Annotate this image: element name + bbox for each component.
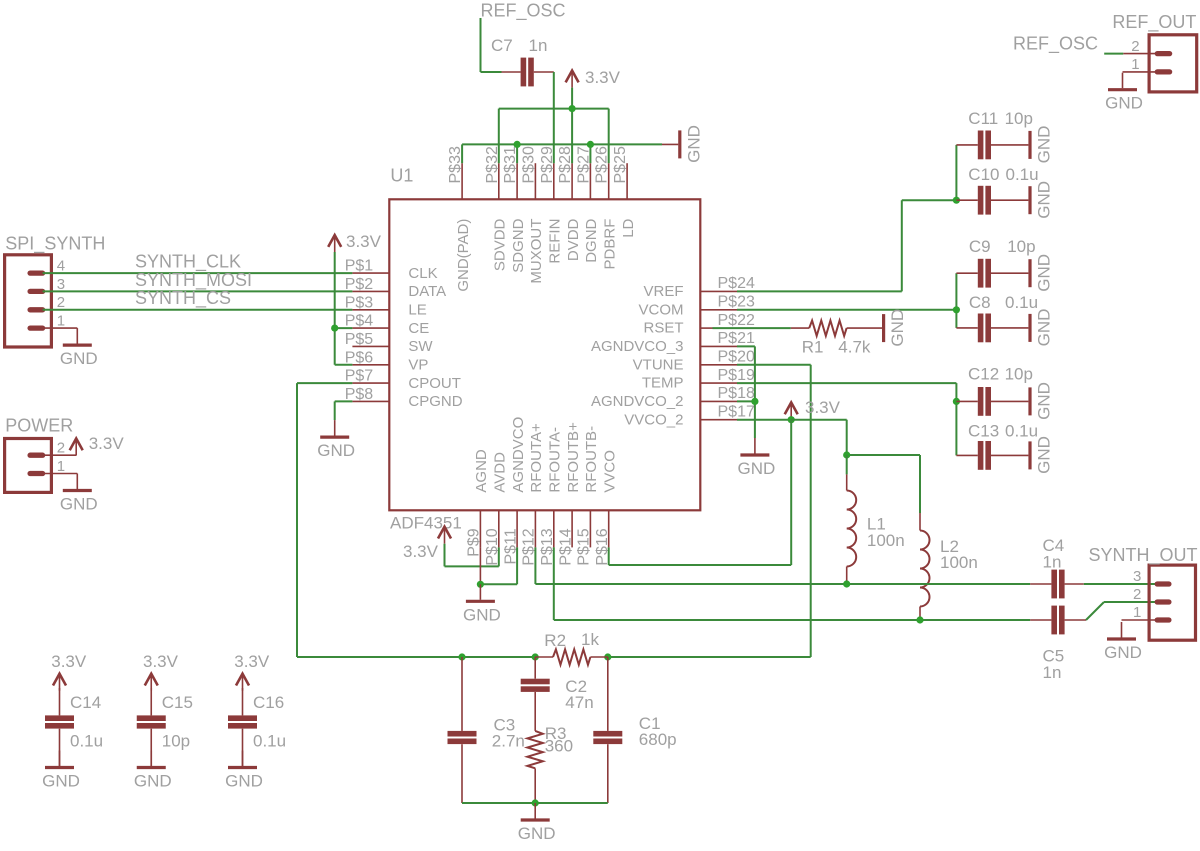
svg-text:1: 1 (57, 313, 65, 330)
junction at L1 top (843, 451, 850, 458)
svg-text:C8: C8 (969, 293, 991, 312)
junction at R2 left / C2 (532, 653, 539, 660)
pin P$19 (TEMP) right of U1 (642, 367, 755, 392)
svg-text:P$2: P$2 (345, 276, 374, 293)
svg-text:P$19: P$19 (718, 367, 755, 384)
ground GND (REF_OUT) (1105, 73, 1143, 113)
svg-text:REFIN: REFIN (547, 219, 564, 264)
wire net SYNTH_CLK (43, 252, 353, 274)
pin P$11 (AGNDVCO) bottom of U1 (502, 417, 527, 565)
wire VREF up-branch to C11 (955, 145, 957, 200)
svg-text:R1: R1 (802, 338, 824, 357)
pin P$20 (VTUNE) right of U1 (633, 349, 755, 374)
svg-text:LD: LD (620, 218, 637, 237)
svg-text:CPGND: CPGND (408, 393, 462, 410)
pin P$29 (REFIN) top of U1 (539, 146, 564, 264)
svg-text:2: 2 (57, 440, 65, 457)
svg-text:SYNTH_OUT: SYNTH_OUT (1089, 545, 1198, 566)
svg-text:SPI_SYNTH: SPI_SYNTH (5, 234, 105, 255)
wire loop filter bottom rail (462, 802, 608, 804)
svg-text:DATA: DATA (408, 283, 446, 300)
svg-text:1n: 1n (1043, 663, 1062, 682)
svg-text:10p: 10p (1007, 237, 1035, 256)
svg-text:3.3V: 3.3V (234, 652, 270, 671)
wire AGNDVCO_3/AGNDVCO_2 to ground (737, 346, 755, 438)
svg-text:4.7k: 4.7k (838, 338, 871, 357)
pin P$30 (MUXOUT) top of U1 (520, 146, 545, 284)
wire RFOUTA+ net (P$12 to C4) (535, 547, 1030, 584)
ground GND (AGND) (463, 584, 501, 624)
svg-text:C11: C11 (968, 109, 998, 128)
svg-text:DGND: DGND (583, 218, 600, 262)
svg-text:3.3V: 3.3V (346, 232, 382, 251)
wire VVCO net (P$16 up to VVCO_2) (609, 420, 792, 565)
junction at AGNDVCO_2 (751, 398, 758, 405)
resistor R2 (535, 630, 608, 665)
ground GND (CPGND) (317, 420, 355, 460)
svg-text:AGNDVCO_2: AGNDVCO_2 (591, 393, 684, 410)
svg-text:GND: GND (317, 441, 355, 460)
svg-text:680p: 680p (639, 730, 677, 749)
svg-text:C9: C9 (969, 237, 991, 256)
inductor L2 (920, 513, 978, 620)
svg-text:P$15: P$15 (576, 528, 593, 565)
pin P$7 (CPOUT) left of U1 (345, 368, 461, 392)
svg-text:GND: GND (1104, 643, 1142, 662)
capacitor C10 (956, 165, 1038, 215)
svg-text:P$23: P$23 (718, 294, 755, 311)
net label REF_OSC (top) (481, 1, 566, 22)
wire net SYNTH_MOSI (43, 270, 353, 292)
pin P$33 (GND(PAD)) top of U1 (447, 146, 472, 292)
wire SYNTH_OUT pin1 to ground (1122, 619, 1158, 621)
svg-text:GND: GND (60, 495, 98, 514)
pin P$24 (VREF) right of U1 (643, 275, 754, 300)
wire VTUNE net (P$20 to loop filter) (737, 365, 811, 657)
svg-text:P$25: P$25 (612, 146, 629, 183)
ground GND (C13) (1030, 436, 1054, 474)
svg-text:P$8: P$8 (345, 386, 374, 403)
svg-text:10p: 10p (1005, 365, 1033, 384)
ground GND (C14) (42, 751, 80, 791)
junction at R2 right / C1 (604, 653, 611, 660)
wire 3.3V rail to CE/VP (335, 252, 353, 365)
svg-text:MUXOUT: MUXOUT (528, 219, 545, 284)
svg-text:0.1u: 0.1u (1005, 293, 1038, 312)
ground GND (R1) (884, 309, 908, 347)
svg-text:GND: GND (684, 125, 703, 163)
svg-text:RSET: RSET (643, 320, 683, 337)
svg-text:GND: GND (1035, 254, 1054, 292)
svg-text:RFOUTA-: RFOUTA- (547, 427, 564, 493)
pin P$8 (CPGND) left of U1 (345, 386, 463, 410)
connector SYNTH_OUT (1089, 545, 1198, 640)
svg-text:0.1u: 0.1u (1005, 422, 1038, 441)
svg-text:GND(PAD): GND(PAD) (455, 219, 472, 292)
svg-text:P$4: P$4 (345, 313, 374, 330)
svg-text:3.3V: 3.3V (89, 434, 125, 453)
svg-text:4: 4 (57, 258, 65, 275)
svg-text:GND: GND (1035, 126, 1054, 164)
ground GND (C11) (1030, 126, 1054, 164)
pin P$12 (RFOUTA+) bottom of U1 (521, 423, 546, 566)
svg-text:ADF4351: ADF4351 (390, 514, 462, 533)
svg-text:GND: GND (518, 824, 556, 843)
wire REF_OUT pin1 to ground (1123, 71, 1158, 73)
wire RSET net (713, 327, 791, 329)
ground GND (top right of U1) (662, 125, 703, 163)
wire loop filter rail (CPOUT/VTUNE) (297, 656, 811, 658)
wire top bus A (3.3V: P$32-P$26) (499, 109, 609, 164)
svg-text:VCOM: VCOM (639, 301, 684, 318)
wire VREF net (P$24 to C10/C11) (737, 200, 956, 291)
svg-text:VP: VP (408, 357, 428, 374)
svg-text:REF_OSC: REF_OSC (1013, 34, 1098, 55)
svg-text:100n: 100n (867, 531, 905, 550)
svg-text:P$24: P$24 (718, 275, 755, 292)
svg-text:PDBRF: PDBRF (601, 219, 618, 270)
capacitor C1 (593, 657, 676, 803)
capacitor C2 (521, 657, 594, 731)
junction bus B at P$31 (514, 141, 521, 148)
svg-text:P$7: P$7 (345, 368, 374, 385)
connector POWER (5, 416, 74, 493)
pin P$4 (CE) left of U1 (345, 313, 430, 337)
svg-text:GND: GND (888, 309, 907, 347)
svg-text:CLK: CLK (408, 265, 437, 282)
svg-text:1: 1 (1131, 56, 1139, 73)
svg-text:P$30: P$30 (520, 146, 537, 183)
svg-text:VREF: VREF (643, 283, 683, 300)
junction at VCOM (953, 306, 960, 313)
pin P$21 (AGNDVCO_3) right of U1 (591, 330, 755, 355)
resistor R1 (791, 321, 883, 357)
supply 3.3V (C14) (51, 652, 87, 691)
svg-text:P$17: P$17 (718, 404, 755, 421)
wire VVCO_2 net (P$17) (737, 417, 791, 420)
svg-text:AGNDVCO: AGNDVCO (510, 417, 527, 493)
svg-text:GND: GND (60, 349, 98, 368)
svg-text:REF_OUT: REF_OUT (1112, 12, 1196, 33)
capacitor C13 (956, 422, 1038, 470)
pin P$16 (VVCO) bottom of U1 (594, 450, 619, 566)
capacitor C14 (45, 688, 103, 766)
pin P$17 (VVCO_2) right of U1 (624, 404, 755, 429)
svg-text:P$14: P$14 (557, 528, 574, 565)
pin P$3 (LE) left of U1 (345, 294, 427, 318)
capacitor C11 (956, 109, 1033, 159)
svg-text:AVDD: AVDD (492, 452, 509, 493)
wire POWER pin2 to 3.3V (43, 454, 77, 456)
wire RFOUTA- net (P$13 to C5) (554, 547, 1030, 620)
pin P$32 (SDVDD) top of U1 (484, 146, 509, 271)
svg-text:47n: 47n (565, 693, 593, 712)
connector SPI_SYNTH (5, 234, 106, 348)
capacitor C15 (137, 688, 193, 766)
svg-text:RFOUTA+: RFOUTA+ (528, 423, 545, 493)
svg-text:VTUNE: VTUNE (633, 356, 684, 373)
svg-text:3.3V: 3.3V (403, 542, 439, 561)
ground GND (SYNTH_OUT) (1104, 622, 1142, 662)
svg-text:GND: GND (738, 459, 776, 478)
ground GND (C16) (225, 751, 263, 791)
ground GND (C9) (1030, 254, 1054, 292)
svg-text:POWER: POWER (5, 416, 73, 436)
IC U1 body (389, 199, 700, 510)
inductor L1 (847, 455, 905, 584)
wire CPGND to ground (335, 401, 353, 420)
svg-text:SDGND: SDGND (510, 218, 527, 272)
wire top bus B (GND: P$33-P$31-P$27) (462, 144, 662, 163)
wire 3.3V to P$10 (445, 544, 499, 567)
ground GND (C10) (1030, 181, 1054, 219)
connector REF_OUT (1112, 12, 1196, 92)
wire REF_OSC to REF_OUT pin2 (1104, 53, 1157, 55)
svg-text:C16: C16 (253, 693, 284, 712)
svg-text:GND: GND (134, 772, 172, 791)
svg-text:VVCO_2: VVCO_2 (624, 411, 683, 428)
svg-text:0.1u: 0.1u (253, 732, 286, 751)
supply 3.3V (left of U1) (328, 232, 381, 252)
supply 3.3V (AVDD) (403, 527, 451, 561)
capacitor C8 (956, 293, 1038, 342)
junction at AGND (477, 581, 484, 588)
svg-text:P$22: P$22 (718, 312, 755, 329)
svg-text:GND: GND (1035, 181, 1054, 219)
svg-text:2: 2 (57, 294, 65, 311)
svg-text:R2: R2 (544, 631, 566, 650)
pin P$14 (RFOUTB+) bottom of U1 (557, 422, 582, 566)
svg-text:SYNTH_CS: SYNTH_CS (135, 288, 231, 309)
junction on bus A at DVDD (569, 105, 576, 112)
svg-text:C7: C7 (491, 36, 513, 55)
svg-text:C13: C13 (968, 422, 999, 441)
svg-text:P$3: P$3 (345, 294, 374, 311)
pin P$10 (AVDD) bottom of U1 (484, 452, 509, 566)
svg-text:3.3V: 3.3V (585, 68, 621, 87)
junction at L2 bottom (916, 616, 923, 623)
pin P$2 (DATA) left of U1 (345, 276, 446, 300)
capacitor C7 (491, 36, 554, 86)
junction at CE (331, 325, 338, 332)
pin P$28 (DVDD) top of U1 (557, 146, 582, 261)
wire VVCO_2 to L1/L2 top (791, 420, 920, 513)
svg-text:1k: 1k (581, 630, 599, 649)
svg-text:GND: GND (225, 772, 263, 791)
svg-text:2: 2 (1131, 38, 1139, 55)
svg-text:C15: C15 (162, 693, 193, 712)
svg-text:1n: 1n (529, 36, 548, 55)
wire TEMP net (P$19 to C12/C13) (737, 383, 956, 455)
wire C5 to SYNTH_OUT pin2 (diagonal) (1086, 602, 1157, 620)
pin P$25 (LD) top of U1 (612, 146, 637, 238)
svg-text:0.1u: 0.1u (70, 732, 103, 751)
pin P$26 (PDBRF) top of U1 (594, 146, 619, 269)
svg-text:P$6: P$6 (345, 349, 374, 366)
wire net SYNTH_CS (43, 288, 353, 310)
pin P$6 (VP) left of U1 (345, 349, 429, 373)
resistor R3 (527, 724, 573, 803)
pin P$5 (SW) left of U1 (345, 331, 434, 355)
wire CPOUT net (P$7 down to loop filter) (297, 383, 352, 657)
wire REF_OSC to C7 (481, 71, 502, 73)
pin P$9 (AGND) bottom of U1 (466, 449, 491, 557)
svg-text:1: 1 (1133, 604, 1141, 621)
supply 3.3V (C15) (143, 652, 179, 691)
svg-text:CPOUT: CPOUT (408, 375, 461, 392)
svg-text:10p: 10p (162, 732, 190, 751)
junction at R3 bottom (532, 799, 539, 806)
svg-text:1n: 1n (1043, 553, 1062, 572)
svg-text:10p: 10p (1005, 109, 1033, 128)
supply 3.3V (C16) (234, 652, 270, 691)
junction bus B at P$27 (587, 141, 594, 148)
supply 3.3V (POWER) (70, 434, 125, 456)
ground GND (AGNDVCO) (738, 438, 776, 478)
svg-text:DVDD: DVDD (565, 218, 582, 261)
svg-text:C12: C12 (968, 365, 999, 384)
ground GND (loop filter) (518, 803, 556, 843)
ground GND (C15) (134, 751, 172, 791)
svg-text:100n: 100n (940, 553, 978, 572)
ground GND (SPI_SYNTH) (60, 328, 98, 368)
svg-text:3: 3 (57, 276, 65, 293)
pin P$18 (AGNDVCO_2) right of U1 (591, 385, 755, 410)
svg-text:1: 1 (57, 458, 65, 475)
ground GND (C12) (1030, 382, 1054, 420)
capacitor C12 (956, 365, 1033, 416)
pin P$15 (RFOUTB-) bottom of U1 (576, 426, 601, 566)
wire REF_OSC vertical (480, 18, 482, 72)
svg-text:U1: U1 (390, 166, 413, 186)
pin P$23 (VCOM) right of U1 (639, 294, 755, 319)
svg-text:CE: CE (408, 320, 429, 337)
pin P$22 (RSET) right of U1 (643, 312, 754, 337)
IC U1 value ADF4351 (390, 514, 462, 533)
wire REFIN drop (C7 to P$29) (553, 72, 555, 163)
junction at VVCO_2 (788, 416, 795, 423)
svg-text:2.7n: 2.7n (492, 732, 525, 751)
svg-text:AGNDVCO_3: AGNDVCO_3 (591, 338, 684, 355)
svg-text:3.3V: 3.3V (143, 652, 179, 671)
ground GND (POWER) (60, 474, 98, 514)
wire 3.3V to P$28 (571, 88, 573, 164)
svg-text:2: 2 (1133, 586, 1141, 603)
svg-text:SW: SW (408, 338, 433, 355)
svg-text:P$5: P$5 (345, 331, 374, 348)
svg-text:C10: C10 (968, 165, 999, 184)
wire POWER pin1 to ground (43, 473, 78, 475)
svg-text:REF_OSC: REF_OSC (481, 1, 566, 22)
svg-text:360: 360 (545, 737, 573, 756)
svg-text:P$20: P$20 (718, 349, 755, 366)
svg-text:SDVDD: SDVDD (492, 218, 509, 271)
IC U1 reference label (390, 166, 413, 186)
svg-text:GND: GND (1035, 309, 1054, 347)
svg-text:GND: GND (1105, 94, 1143, 113)
svg-text:GND: GND (1035, 436, 1054, 474)
svg-text:RFOUTB+: RFOUTB+ (565, 422, 582, 493)
junction at C10 (953, 197, 960, 204)
svg-text:RFOUTB-: RFOUTB- (583, 426, 600, 493)
capacitor C4 (1030, 536, 1084, 598)
wire AGND net (P$9/P$11 to ground) (480, 547, 517, 584)
wire SPI pin1 to ground (43, 327, 78, 329)
pin P$1 (CLK) left of U1 (345, 258, 438, 282)
svg-text:LE: LE (408, 302, 426, 319)
svg-text:C14: C14 (70, 693, 101, 712)
svg-text:TEMP: TEMP (642, 375, 684, 392)
svg-text:GND: GND (42, 772, 80, 791)
junction at C3 (458, 653, 465, 660)
pin P$27 (DGND) top of U1 (575, 146, 600, 263)
capacitor C9 (956, 237, 1035, 288)
svg-text:GND: GND (463, 605, 501, 624)
pin P$13 (RFOUTA-) bottom of U1 (539, 427, 564, 566)
wire VCOM net (P$23 to C8/C9) (737, 273, 956, 328)
svg-text:AGND: AGND (473, 449, 490, 493)
capacitor C5 (1030, 606, 1086, 682)
svg-text:3.3V: 3.3V (805, 398, 841, 417)
svg-text:GND: GND (1035, 382, 1054, 420)
svg-text:3.3V: 3.3V (51, 652, 87, 671)
pin P$31 (SDGND) top of U1 (502, 146, 527, 273)
svg-text:P$18: P$18 (718, 385, 755, 402)
supply 3.3V (VVCO) (785, 398, 841, 420)
capacitor C3 (448, 657, 525, 803)
svg-text:P$1: P$1 (345, 258, 374, 275)
capacitor C16 (228, 688, 286, 766)
svg-text:3: 3 (1133, 568, 1141, 585)
supply 3.3V (top, DVDD) (566, 68, 621, 88)
svg-text:P$21: P$21 (718, 330, 755, 347)
ground GND (C8) (1030, 309, 1054, 347)
junction at C12 (953, 398, 960, 405)
wire C4 to SYNTH_OUT pin3 (1084, 583, 1157, 585)
junction at L1 bottom (843, 580, 850, 587)
net label REF_OSC (right) (1013, 34, 1098, 55)
svg-text:VVCO: VVCO (601, 450, 618, 493)
